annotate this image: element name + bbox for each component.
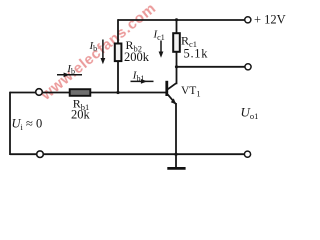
current arrow Ic1 (Rc1)	[160, 41, 162, 55]
svg-text:200k: 200k	[124, 50, 150, 64]
svg-text:Ic1: Ic1	[153, 29, 165, 42]
transistor VT1 emitter lead	[168, 94, 176, 104]
svg-text:+ 12V: + 12V	[254, 13, 286, 27]
wire top rail	[118, 19, 245, 21]
svg-text:VT1: VT1	[181, 85, 201, 99]
terminal input bottom	[37, 151, 44, 158]
terminal +12V	[245, 17, 251, 23]
transistor VT1 base bar	[165, 81, 168, 96]
transistor VT1 emitter arrowhead	[171, 98, 176, 104]
ground	[167, 167, 185, 170]
wire Rc1 bottom lead / collector	[176, 52, 178, 84]
wire Rb2 bottom lead	[117, 61, 119, 92]
resistor Rb2	[115, 44, 122, 62]
wire bottom rail	[10, 153, 245, 155]
wire base line	[10, 92, 166, 94]
node emitter/bottom-rail junction	[174, 153, 177, 156]
wire input short (left)	[9, 92, 11, 155]
current arrow Ib (Rb2)	[102, 40, 104, 62]
node top rail / Rc1 junction	[175, 18, 178, 21]
current arrow Ib1 (base)	[131, 80, 154, 82]
terminal output bottom	[244, 151, 250, 157]
node base junction	[116, 91, 119, 94]
terminal input top	[36, 89, 43, 96]
wire Rc1 top lead	[176, 19, 178, 33]
node collector junction	[175, 65, 178, 68]
svg-text:Uo1: Uo1	[241, 105, 259, 122]
terminal output top	[245, 64, 251, 70]
resistor Rc1	[173, 33, 180, 52]
wire emitter down	[175, 103, 177, 167]
svg-text:Ui ≈ 0: Ui ≈ 0	[12, 116, 43, 132]
svg-text:5.1k: 5.1k	[184, 46, 209, 60]
transistor VT1 collector lead	[168, 83, 176, 89]
svg-text:20k: 20k	[71, 107, 91, 121]
svg-text:Ib1: Ib1	[132, 70, 145, 83]
wire output tap	[177, 66, 246, 68]
current arrow Ib (input)	[57, 74, 82, 76]
wire Rb2 top lead	[117, 19, 119, 43]
resistor Rb1	[70, 89, 91, 96]
